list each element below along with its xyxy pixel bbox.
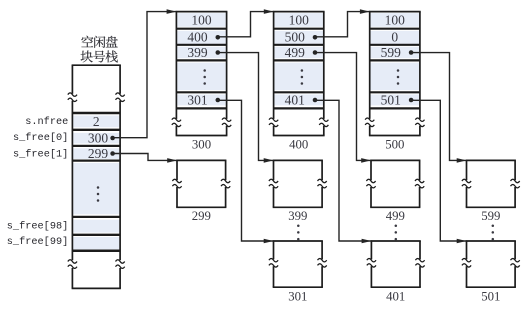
svg-text:301: 301 — [187, 92, 207, 107]
block 499 box — [366, 160, 424, 207]
arrow 301 to block 301 — [218, 100, 274, 243]
svg-text:100: 100 — [289, 12, 310, 27]
block 400 cell fills — [274, 13, 323, 105]
block 500 cell 0 — [391, 30, 398, 45]
block 400 cell 401 — [285, 92, 318, 107]
block 400 cell 499 — [285, 45, 318, 60]
block 500 cell fills — [371, 13, 420, 105]
svg-text:399: 399 — [288, 209, 307, 223]
block 300 cell 301 — [187, 92, 220, 107]
block 500 cell count=100 — [385, 12, 406, 27]
arrow 499 to block 499 — [315, 53, 371, 163]
svg-text:0: 0 — [391, 30, 398, 45]
stack lower break marks — [67, 260, 125, 269]
arrow 501 to block 501 — [411, 100, 466, 243]
svg-text:300: 300 — [192, 138, 211, 152]
svg-text:s_free[1]: s_free[1] — [13, 149, 68, 161]
stack title 空闲盘块号栈 — [81, 36, 118, 63]
svg-text:300: 300 — [88, 130, 109, 145]
block 300 vertical dots — [203, 69, 206, 85]
svg-text:401: 401 — [285, 92, 305, 107]
block 400 cell count=100 — [289, 12, 310, 27]
svg-text:401: 401 — [386, 289, 405, 303]
dots between 399 and 301 — [297, 224, 300, 240]
svg-text:501: 501 — [481, 289, 500, 303]
stack cell s_free[0] = 300 — [88, 130, 115, 145]
block 400 outer box — [269, 12, 328, 136]
arrow s_free[1]=299 to block 299 — [112, 154, 177, 163]
stack outer box with top break — [68, 65, 125, 288]
stack cell fills — [73, 116, 119, 250]
svg-text:299: 299 — [88, 146, 109, 161]
svg-text:100: 100 — [385, 12, 406, 27]
dots between 499 and 401 — [395, 224, 398, 240]
block 300 dots cell — [0, 0, 1, 1]
block 400 dots cell — [0, 0, 1, 1]
block 300 cell count=100 — [191, 12, 212, 27]
arrow 500 to block 500 — [315, 9, 370, 37]
svg-text:399: 399 — [187, 45, 208, 60]
block 500 cell 599 — [381, 45, 414, 60]
block 299 box — [172, 160, 230, 207]
svg-text:s_free[99]: s_free[99] — [7, 236, 69, 248]
arrow 599 to block 599 — [411, 53, 466, 163]
svg-text:499: 499 — [386, 209, 405, 223]
stack vertical dots — [97, 186, 100, 202]
stack cell separators — [72, 113, 120, 251]
svg-text:301: 301 — [288, 289, 307, 303]
block 300 outer box — [172, 12, 231, 136]
block 500 vertical dots — [397, 69, 400, 85]
block 400 cell 500 — [285, 30, 318, 45]
dots between 599 and 501 — [492, 224, 495, 240]
block 400 cell separators — [274, 29, 324, 109]
svg-text:599: 599 — [381, 45, 402, 60]
block 500 cell 501 — [381, 92, 414, 107]
arrow s_free[0]=300 to block 300 — [112, 9, 176, 137]
block 300 cell fills — [177, 13, 226, 105]
svg-text:501: 501 — [381, 92, 401, 107]
block 300 cell separators — [176, 29, 226, 109]
arrow 401 to block 401 — [315, 100, 371, 243]
svg-text:400: 400 — [289, 138, 308, 152]
svg-text:100: 100 — [191, 12, 212, 27]
block 500 dots cell — [0, 0, 1, 1]
svg-text:s_free[98]: s_free[98] — [7, 220, 69, 232]
svg-text:599: 599 — [481, 209, 500, 223]
svg-text:500: 500 — [385, 138, 404, 152]
svg-text:299: 299 — [192, 209, 211, 223]
svg-text:s_free[0]: s_free[0] — [13, 132, 68, 144]
svg-text:500: 500 — [285, 30, 306, 45]
block 501 box — [462, 241, 520, 287]
stack cell s.nfree = 2 — [93, 114, 100, 129]
block 301 box — [269, 241, 327, 287]
block 300 cell 400 — [187, 30, 220, 45]
block 401 box — [367, 241, 425, 287]
arrow 399 to block 399 — [218, 53, 274, 163]
block 500 cell separators — [370, 29, 420, 109]
arrow 400 to block 400 — [218, 9, 274, 37]
svg-text:2: 2 — [93, 114, 100, 129]
svg-text:s.nfree: s.nfree — [25, 116, 68, 128]
block 400 vertical dots — [301, 69, 304, 85]
block 599 box — [462, 160, 520, 207]
block 500 outer box — [365, 12, 424, 136]
block 399 box — [269, 160, 327, 207]
svg-text:400: 400 — [187, 30, 208, 45]
stack cell s_free[1] = 299 — [88, 146, 115, 161]
block 300 cell 399 — [187, 45, 220, 60]
svg-text:499: 499 — [285, 45, 306, 60]
